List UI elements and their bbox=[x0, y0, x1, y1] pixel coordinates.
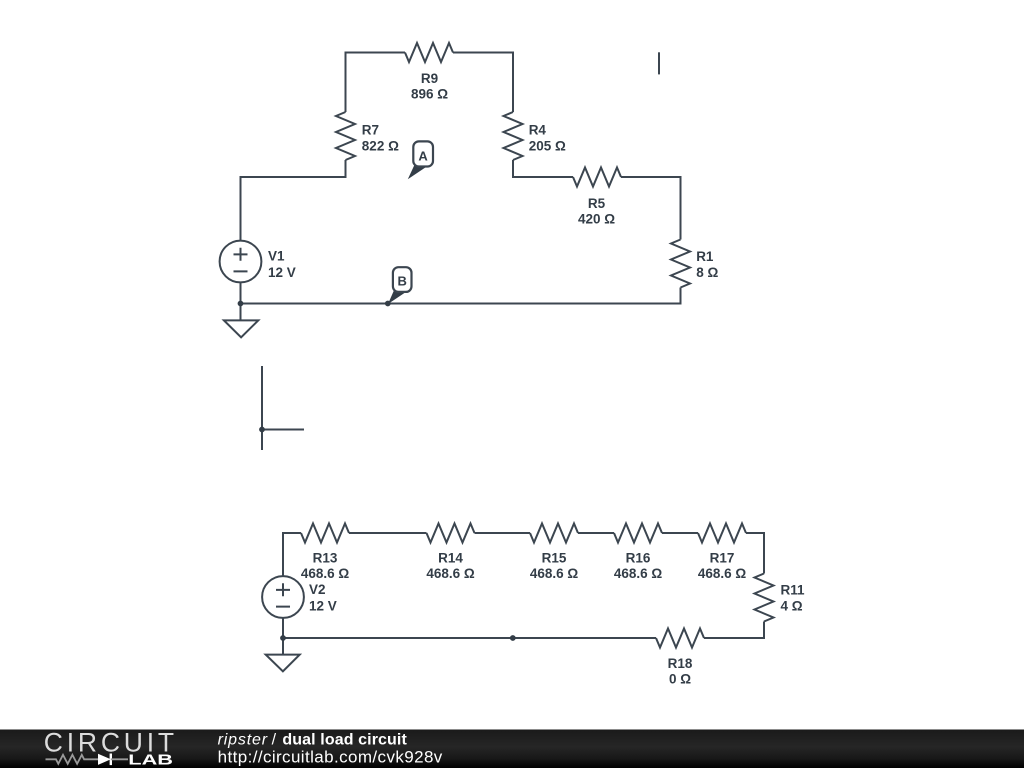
svg-text:R14: R14 bbox=[438, 551, 463, 566]
svg-text:R11: R11 bbox=[781, 583, 806, 598]
svg-text:R15: R15 bbox=[542, 551, 567, 566]
resistor R5 bbox=[573, 168, 621, 187]
label V1 12 V bbox=[268, 249, 296, 280]
node A bbox=[408, 141, 433, 179]
wire bbox=[746, 533, 764, 574]
svg-text:468.6 Ω: 468.6 Ω bbox=[530, 566, 579, 581]
node B bbox=[385, 267, 412, 306]
junction bbox=[259, 427, 265, 433]
svg-text:LAB: LAB bbox=[128, 751, 173, 767]
wire bbox=[475, 532, 531, 534]
wire bbox=[621, 177, 681, 240]
junction bbox=[280, 635, 286, 641]
ground bbox=[266, 655, 300, 672]
junction bbox=[238, 301, 244, 307]
wire bbox=[241, 288, 681, 304]
svg-text:420 Ω: 420 Ω bbox=[578, 211, 615, 226]
logo resistor bbox=[46, 755, 99, 764]
label R17 468.6 ohm bbox=[698, 551, 747, 582]
svg-text:R17: R17 bbox=[710, 551, 735, 566]
wire L bbox=[262, 366, 304, 450]
wire bbox=[346, 53, 406, 113]
resistor R13 bbox=[301, 524, 349, 543]
label R14 468.6 ohm bbox=[426, 551, 475, 582]
wire bbox=[240, 282, 242, 320]
footer bar bbox=[0, 730, 1024, 768]
label R1 8 ohm bbox=[696, 249, 718, 280]
voltage source V1 bbox=[220, 241, 262, 283]
wire bbox=[453, 53, 513, 113]
svg-text:V1: V1 bbox=[268, 249, 285, 264]
svg-text:R9: R9 bbox=[421, 71, 438, 86]
svg-text:12 V: 12 V bbox=[268, 265, 296, 280]
svg-text:822 Ω: 822 Ω bbox=[362, 138, 399, 153]
label R13 468.6 ohm bbox=[301, 551, 350, 582]
svg-text:R16: R16 bbox=[626, 551, 651, 566]
svg-text:468.6 Ω: 468.6 Ω bbox=[426, 566, 475, 581]
label R18 0 ohm bbox=[668, 656, 693, 687]
resistor R15 bbox=[530, 524, 578, 543]
svg-text:B: B bbox=[398, 274, 407, 289]
resistor R1 bbox=[671, 240, 690, 288]
resistor R11 bbox=[755, 574, 774, 622]
svg-text:R5: R5 bbox=[588, 196, 606, 211]
svg-text:4 Ω: 4 Ω bbox=[781, 599, 803, 614]
svg-text:/: / bbox=[272, 732, 277, 749]
resistor R4 bbox=[504, 112, 523, 160]
label R15 468.6 ohm bbox=[530, 551, 579, 582]
svg-text:http://circuitlab.com/cvk928v: http://circuitlab.com/cvk928v bbox=[218, 747, 443, 766]
svg-text:R13: R13 bbox=[313, 551, 338, 566]
label R16 468.6 ohm bbox=[614, 551, 663, 582]
resistor R17 bbox=[698, 524, 746, 543]
svg-text:A: A bbox=[418, 149, 428, 164]
svg-text:8 Ω: 8 Ω bbox=[696, 265, 718, 280]
svg-text:R7: R7 bbox=[362, 122, 379, 137]
svg-text:468.6 Ω: 468.6 Ω bbox=[301, 566, 350, 581]
svg-text:896 Ω: 896 Ω bbox=[411, 86, 448, 101]
svg-text:ripster: ripster bbox=[218, 732, 268, 749]
svg-text:468.6 Ω: 468.6 Ω bbox=[698, 566, 747, 581]
resistor R9 bbox=[405, 43, 453, 62]
wire bbox=[282, 618, 284, 655]
label R5 420 ohm bbox=[578, 196, 615, 227]
label R11 4 ohm bbox=[781, 583, 806, 614]
svg-text:R18: R18 bbox=[668, 656, 693, 671]
resistor R18 bbox=[656, 629, 704, 648]
logo diode bbox=[98, 754, 128, 766]
ground bbox=[224, 320, 258, 337]
wire bbox=[349, 532, 427, 534]
svg-text:R4: R4 bbox=[529, 122, 547, 137]
wire bbox=[283, 637, 656, 639]
wire bbox=[283, 533, 301, 576]
resistor R14 bbox=[427, 524, 475, 543]
svg-text:468.6 Ω: 468.6 Ω bbox=[614, 566, 663, 581]
svg-text:12 V: 12 V bbox=[309, 598, 337, 613]
wire bbox=[704, 622, 764, 639]
wire bbox=[662, 532, 698, 534]
wire bbox=[578, 532, 614, 534]
resistor R16 bbox=[614, 524, 662, 543]
wire bbox=[241, 160, 346, 240]
voltage source V2 bbox=[262, 576, 304, 618]
wire bbox=[513, 160, 573, 177]
label R7 822 ohm bbox=[362, 122, 399, 153]
junction bbox=[510, 635, 516, 641]
wire stub bbox=[658, 52, 660, 74]
svg-text:205 Ω: 205 Ω bbox=[529, 138, 566, 153]
label V2 12 V bbox=[309, 582, 337, 613]
resistor R7 bbox=[336, 112, 355, 160]
svg-text:dual load circuit: dual load circuit bbox=[282, 732, 407, 749]
svg-text:0 Ω: 0 Ω bbox=[669, 671, 691, 686]
label R9 896 ohm bbox=[411, 71, 448, 102]
svg-text:R1: R1 bbox=[696, 249, 714, 264]
label R4 205 ohm bbox=[529, 122, 566, 153]
svg-text:V2: V2 bbox=[309, 582, 326, 597]
